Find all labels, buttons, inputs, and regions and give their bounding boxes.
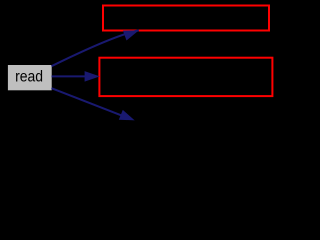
svg-text:read: read [15,68,43,85]
node box2 (red truncated node) [99,58,272,96]
edge read->box2 [52,71,100,82]
node box1 (red truncated node) [103,6,269,31]
edge read->box1 [52,30,139,66]
edge read->box3 (box3 invisible on black) [52,88,135,120]
node read [8,65,52,90]
